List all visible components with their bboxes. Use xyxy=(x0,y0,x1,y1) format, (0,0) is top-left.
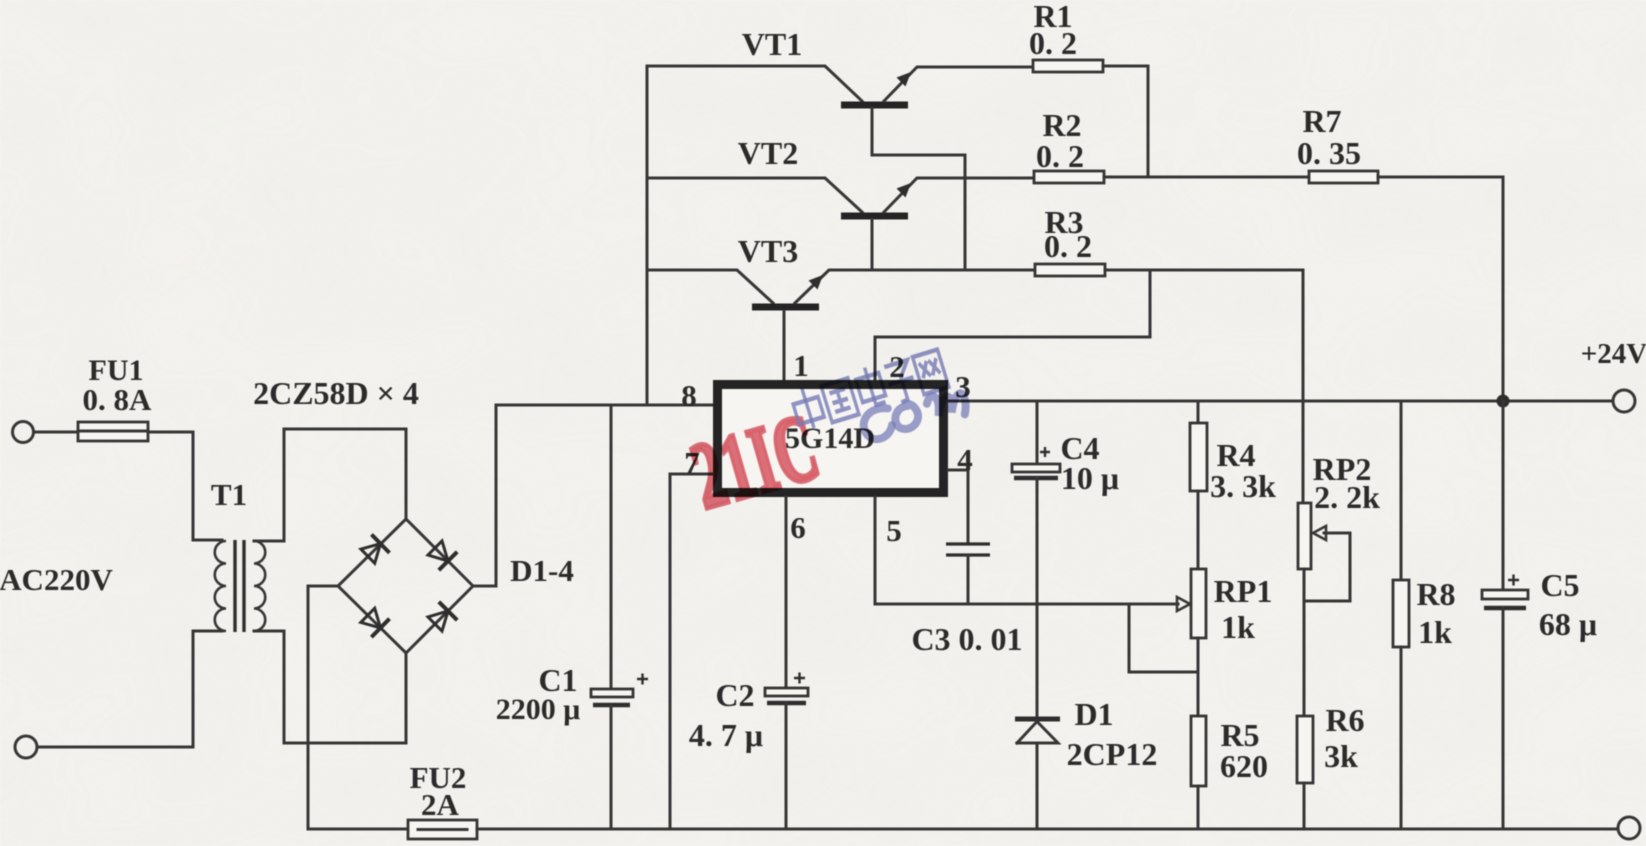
svg-text:5: 5 xyxy=(886,513,902,548)
svg-text:C5: C5 xyxy=(1540,567,1579,603)
svg-text:1: 1 xyxy=(793,348,809,383)
svg-text:VT2: VT2 xyxy=(738,135,798,171)
svg-text:6: 6 xyxy=(790,510,806,545)
svg-text:3k: 3k xyxy=(1324,738,1358,774)
svg-text:1k: 1k xyxy=(1418,614,1452,650)
svg-text:RP1: RP1 xyxy=(1214,573,1273,609)
svg-text:VT3: VT3 xyxy=(738,233,798,269)
svg-text:1k: 1k xyxy=(1221,609,1255,645)
svg-text:VT1: VT1 xyxy=(742,26,802,62)
svg-text:2CZ58D × 4: 2CZ58D × 4 xyxy=(253,375,419,411)
svg-text:T1: T1 xyxy=(211,477,247,512)
svg-text:0. 8A: 0. 8A xyxy=(83,382,153,417)
svg-text:D1: D1 xyxy=(1074,696,1113,732)
svg-text:AC220V: AC220V xyxy=(0,562,113,597)
svg-text:0. 35: 0. 35 xyxy=(1297,135,1361,171)
svg-text:R8: R8 xyxy=(1416,576,1455,612)
svg-text:68 μ: 68 μ xyxy=(1539,606,1597,642)
svg-text:0. 2: 0. 2 xyxy=(1036,138,1084,174)
svg-text:2CP12: 2CP12 xyxy=(1067,736,1158,772)
svg-text:C2: C2 xyxy=(715,677,754,713)
svg-text:0. 2: 0. 2 xyxy=(1044,228,1092,264)
svg-text:C3 0. 01: C3 0. 01 xyxy=(911,621,1022,657)
svg-text:620: 620 xyxy=(1220,748,1268,784)
svg-text:0. 2: 0. 2 xyxy=(1029,25,1077,61)
svg-text:4. 7 μ: 4. 7 μ xyxy=(689,717,763,753)
svg-text:D1-4: D1-4 xyxy=(510,553,574,588)
svg-text:2. 2k: 2. 2k xyxy=(1314,479,1380,515)
svg-text:8: 8 xyxy=(681,378,697,413)
svg-text:R6: R6 xyxy=(1325,702,1364,738)
svg-text:R7: R7 xyxy=(1302,103,1341,139)
svg-text:3. 3k: 3. 3k xyxy=(1210,468,1276,504)
svg-text:2200 μ: 2200 μ xyxy=(496,693,581,726)
svg-text:+24V: +24V xyxy=(1581,338,1646,370)
svg-text:4: 4 xyxy=(957,442,973,477)
svg-text:10 μ: 10 μ xyxy=(1061,460,1119,496)
svg-text:2A: 2A xyxy=(421,787,460,822)
